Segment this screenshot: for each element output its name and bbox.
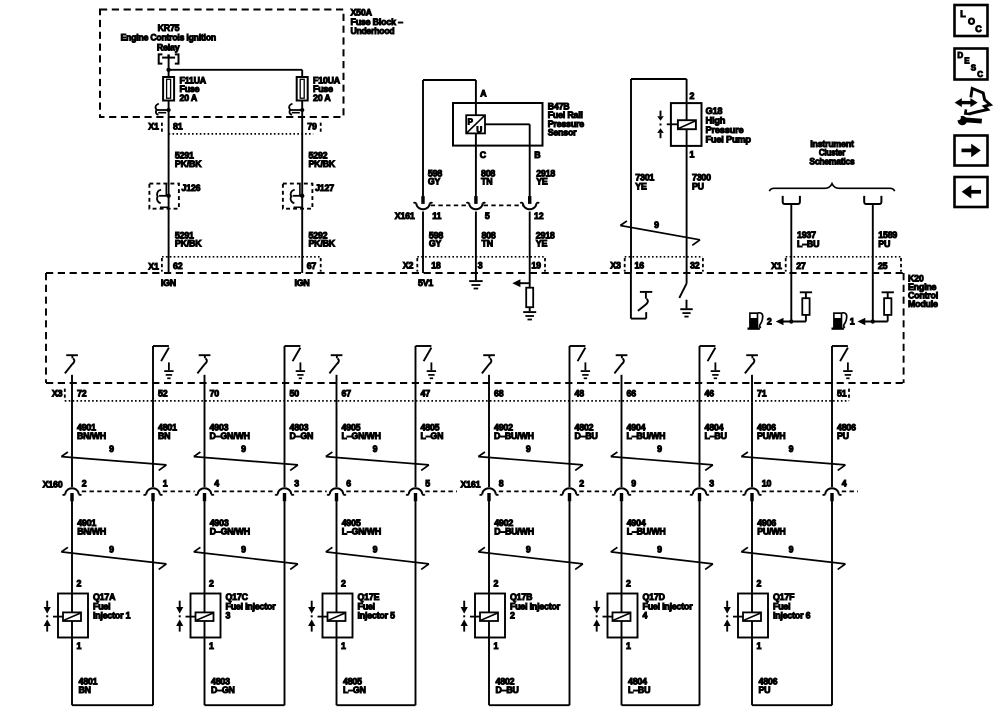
svg-text:27: 27 (796, 261, 806, 271)
svg-text:9: 9 (657, 544, 662, 554)
icon box forward arrow (955, 136, 988, 166)
label G18 High Pressure Fuel Pump (706, 106, 752, 145)
svg-text:BN/WH: BN/WH (77, 431, 106, 441)
svg-text:PU/WH: PU/WH (757, 526, 785, 536)
wire 4806 PU loop (752, 501, 832, 705)
driver internal at X3-72 (65, 355, 78, 373)
svg-text:PU/WH: PU/WH (757, 431, 785, 441)
svg-text:GY: GY (429, 239, 442, 249)
splice J126 (149, 184, 179, 209)
wire label 2918 YE upper (536, 169, 555, 187)
driver internal at X3-16 (631, 273, 652, 319)
svg-text:2: 2 (626, 579, 631, 589)
connector X160 row pin 3 (690, 488, 709, 501)
wire label 4906 PU/WH (757, 423, 785, 441)
svg-text:L–BU: L–BU (705, 431, 727, 441)
svg-text:1: 1 (494, 641, 499, 651)
in-line connector hook on wire 81 (156, 104, 171, 115)
connector X161 pin 5 (466, 196, 485, 209)
svg-text:PU: PU (837, 431, 849, 441)
svg-text:X160: X160 (43, 480, 63, 490)
svg-text:1: 1 (163, 479, 168, 489)
svg-text:51: 51 (837, 389, 847, 399)
gas pump icon 1 (832, 312, 847, 330)
svg-text:Schematics: Schematics (809, 156, 854, 166)
wire 1937 L-BU (790, 204, 792, 273)
svg-text:PU: PU (759, 685, 771, 695)
svg-text:9: 9 (654, 220, 659, 230)
label KR75 Engine Controls Ignition Relay (121, 23, 216, 52)
svg-text:20 A: 20 A (180, 93, 198, 103)
svg-text:D: D (957, 51, 963, 60)
injector Q17C coil (186, 612, 214, 621)
label K20 Engine Control Module (908, 273, 938, 309)
svg-text:L–GN: L–GN (421, 431, 444, 441)
svg-text:9: 9 (241, 544, 246, 554)
wire X2-19 internal (529, 273, 531, 288)
svg-text:52: 52 (158, 389, 168, 399)
label Q17D (643, 592, 694, 621)
junction node pin 27 (789, 319, 793, 323)
svg-text:X161: X161 (461, 480, 481, 490)
sensor B47B outer box (453, 103, 543, 146)
svg-text:High: High (706, 115, 726, 125)
wire label 4903 D&#8211;GN/WH lower (210, 518, 250, 536)
injector Q17F box (738, 594, 768, 638)
svg-text:L–GN/WH: L–GN/WH (342, 526, 381, 536)
resistor internal at pin 19 (526, 288, 533, 308)
clamp internal at X3-50 (285, 346, 306, 378)
wire X3-66 down to X160 (621, 375, 623, 487)
wire relay to junction (168, 58, 170, 77)
svg-text:72: 72 (77, 389, 87, 399)
svg-text:67: 67 (342, 389, 352, 399)
injector Q17A box (58, 594, 88, 638)
connector X160 row pin 8 (480, 488, 499, 501)
svg-text:IGN: IGN (161, 278, 176, 288)
twisted pair marker (61, 452, 166, 470)
svg-text:48: 48 (575, 389, 585, 399)
svg-text:5: 5 (425, 479, 430, 489)
injector Q17C flow arrows (176, 601, 183, 632)
wire label 4904 L&#8211;BU/WH (627, 423, 666, 441)
wire 2918 YE to X2-19 (529, 212, 531, 274)
connector row dashes (82, 490, 858, 492)
svg-text:3: 3 (478, 260, 483, 270)
wire pin 25 internal (872, 273, 874, 322)
svg-text:2: 2 (209, 579, 214, 589)
driver internal at X3-71 (745, 355, 758, 373)
svg-text:C: C (480, 150, 487, 160)
wire label 4805 L&#8211;GN (343, 677, 366, 695)
svg-text:PK/BK: PK/BK (175, 239, 202, 249)
wire label 808 TN upper (481, 169, 495, 187)
svg-text:B: B (534, 150, 540, 160)
label Q17E (358, 592, 396, 621)
svg-text:1: 1 (77, 641, 82, 651)
svg-text:2: 2 (510, 611, 515, 621)
svg-text:KR75: KR75 (158, 23, 180, 33)
twisted pair marker (741, 452, 845, 470)
wire X3-46 down to X160 (699, 346, 701, 487)
G18 check-valve arrows (657, 111, 664, 139)
svg-text:Pressure: Pressure (706, 125, 744, 135)
icon diagnostic arrows and wrench (955, 88, 991, 125)
wire pin 27 internal (790, 273, 792, 322)
svg-text:68: 68 (494, 389, 504, 399)
svg-text:L–BU: L–BU (797, 239, 819, 249)
svg-text:32: 32 (690, 260, 700, 270)
svg-text:X1: X1 (148, 261, 159, 271)
svg-text:20 A: 20 A (313, 93, 331, 103)
connector X2 row at ECM (403, 257, 545, 272)
svg-text:70: 70 (210, 389, 220, 399)
connector X161 pin 11 (414, 196, 433, 209)
svg-text:YE: YE (536, 239, 548, 249)
svg-text:O: O (968, 16, 975, 26)
injector Q17E flow arrows (308, 601, 315, 632)
wire 4901 to injector Q17A (71, 501, 73, 612)
wire G18 pin1 to X3-32 (686, 146, 688, 273)
svg-text:67: 67 (307, 261, 317, 271)
wire 4902 to injector Q17B (488, 501, 490, 612)
connector X1 pin 81/79 row (148, 121, 320, 134)
icon box DESC (955, 49, 988, 80)
clamp internal at X3-51 (832, 346, 853, 378)
wire label 4803 D&#8211;GN (211, 677, 235, 695)
wire label 4801 BN (79, 677, 98, 695)
G18 coil element (667, 120, 696, 129)
wire F11UA to X1-62 (168, 101, 170, 274)
connector X160 row pin 9 (612, 488, 631, 501)
svg-text:2: 2 (767, 317, 772, 327)
wire label 2918 YE lower (536, 230, 555, 248)
svg-text:D–BU: D–BU (575, 431, 598, 441)
svg-text:5V1: 5V1 (418, 278, 433, 288)
svg-text:L–GN: L–GN (343, 685, 366, 695)
injector Q17D coil (603, 612, 631, 621)
svg-text:A: A (480, 88, 487, 98)
label Q17A (93, 592, 131, 621)
svg-text:S: S (971, 63, 977, 72)
injector Q17F flow arrows (724, 601, 731, 632)
label Q17F (773, 592, 811, 621)
wire X3-67 down to X160 (336, 375, 338, 487)
svg-text:2: 2 (690, 91, 695, 101)
wire 4802 D&#8211;BU loop (489, 501, 570, 705)
relay KR75 contact symbol (159, 54, 179, 63)
wire label 4804 L&#8211;BU (705, 423, 727, 441)
svg-text:5: 5 (485, 211, 490, 221)
svg-text:L–BU/WH: L–BU/WH (627, 431, 666, 441)
wire X3-71 down to X160 (751, 375, 753, 487)
svg-text:X161: X161 (395, 211, 415, 221)
connector X160 row pin 4 (823, 488, 842, 501)
wire label 4901 BN/WH lower (77, 518, 106, 536)
icon box back arrow (955, 177, 988, 207)
svg-text:L: L (960, 9, 966, 19)
svg-text:X1: X1 (771, 261, 782, 271)
svg-text:1: 1 (209, 641, 214, 651)
svg-text:2: 2 (82, 479, 87, 489)
svg-text:12: 12 (534, 211, 544, 221)
ECM K20 dashed boundary (46, 273, 904, 383)
injector Q17D flow arrows (593, 601, 600, 632)
injector Q17A flow arrows (44, 601, 51, 632)
junction node (166, 68, 170, 72)
driver internal at X3-70 (197, 355, 210, 373)
twisted pair marker (478, 452, 583, 470)
wire label 598 GY upper (428, 169, 442, 187)
svg-text:L–GN/WH: L–GN/WH (342, 431, 381, 441)
wire label 1937 L-BU (797, 230, 819, 249)
svg-text:1: 1 (850, 317, 855, 327)
wire X3-52 down to X160 (152, 346, 154, 487)
wire label 4901 BN/WH (77, 423, 106, 441)
wire X3-51 down to X160 (831, 346, 833, 487)
connector X160 row pin 5 (406, 488, 425, 501)
svg-text:Sensor: Sensor (548, 127, 577, 137)
svg-text:9: 9 (526, 544, 531, 554)
svg-text:X3: X3 (52, 389, 63, 399)
brace instrument cluster (769, 184, 894, 192)
wire label 4806 PU (837, 423, 856, 441)
injector Q17C box (191, 594, 221, 638)
twisted pair marker lower (61, 547, 166, 569)
label Q17B (510, 592, 561, 621)
twisted pair marker (194, 452, 298, 470)
svg-text:9: 9 (526, 444, 531, 454)
svg-text:16: 16 (635, 260, 645, 270)
pull-up resistor internal at 27 (800, 292, 812, 321)
wire label 7300 PU (692, 172, 711, 191)
svg-text:47: 47 (421, 389, 431, 399)
wire label 4801 BN (158, 423, 177, 441)
svg-text:2: 2 (579, 479, 584, 489)
wire F10UA to X1-67 (301, 101, 303, 274)
svg-text:E: E (964, 56, 970, 65)
connector X160 row pin 4 (195, 488, 214, 501)
wire label 4802 D&#8211;BU (496, 677, 519, 695)
svg-text:4: 4 (643, 611, 648, 621)
svg-text:19: 19 (531, 260, 541, 270)
label B47B Fuel Rail Pressure Sensor (548, 102, 585, 138)
wire 4903 to injector Q17C (204, 501, 206, 612)
clamp internal at X3-52 (153, 346, 174, 378)
svg-text:Fuel Injector: Fuel Injector (510, 601, 561, 611)
svg-text:4: 4 (842, 479, 847, 489)
driver internal at X3-68 (482, 355, 495, 373)
svg-text:G18: G18 (706, 106, 723, 116)
svg-text:1: 1 (690, 150, 695, 160)
pull-up resistor internal at 25 (882, 292, 894, 321)
svg-text:3: 3 (709, 479, 714, 489)
svg-text:71: 71 (757, 389, 767, 399)
wire label 1589 PU (878, 230, 897, 249)
wire label 4905 L&#8211;GN/WH lower (342, 518, 381, 536)
twisted pair marker lower (194, 547, 298, 569)
icon box LOC (955, 5, 988, 36)
cluster connector terminal 1589 (864, 196, 881, 204)
wire X3-50 down to X160 (284, 346, 286, 487)
label Instrument Cluster Schematics (809, 139, 854, 166)
svg-text:L–BU: L–BU (628, 685, 650, 695)
svg-text:9: 9 (109, 544, 114, 554)
wire 4906 to injector Q17F (751, 501, 753, 612)
wire label 4904 L&#8211;BU/WH lower (627, 518, 666, 536)
wire 4904 to injector Q17D (621, 501, 623, 612)
wire label 4804 L&#8211;BU (628, 677, 650, 695)
svg-text:D–GN/WH: D–GN/WH (210, 526, 250, 536)
svg-text:D–GN/WH: D–GN/WH (210, 431, 250, 441)
svg-text:IGN: IGN (294, 278, 309, 288)
svg-text:2: 2 (757, 579, 762, 589)
svg-text:X1: X1 (148, 122, 159, 132)
twisted pair marker (326, 452, 429, 470)
connector X3 bottom row labels (52, 389, 849, 401)
driver internal at X3-66 (614, 355, 627, 373)
svg-text:YE: YE (536, 177, 548, 187)
signal arrow at pin 19 (512, 279, 529, 287)
label F10UA Fuse 20 A (313, 76, 341, 103)
ground below resistor (523, 307, 536, 319)
sensor P/U transducer box (466, 115, 485, 134)
ground at X3-32 (680, 300, 692, 317)
injector Q17B box (475, 594, 505, 638)
svg-text:D–BU: D–BU (496, 685, 519, 695)
svg-text:9: 9 (657, 444, 662, 454)
svg-text:D–GN: D–GN (211, 685, 235, 695)
svg-text:25: 25 (878, 261, 888, 271)
svg-text:BN: BN (158, 431, 170, 441)
svg-text:Injector 1: Injector 1 (93, 611, 131, 621)
wire 598 GY to X2-18 (422, 212, 424, 274)
connector X1 pin 62/67 row at ECM (148, 257, 320, 272)
svg-text:4: 4 (214, 479, 219, 489)
fuel gauge drive 2 line with arrow (776, 318, 806, 326)
wire label 5292 PK/BK lower (309, 230, 336, 248)
wire label 808 TN lower (482, 230, 496, 248)
svg-text:U: U (476, 125, 482, 134)
svg-text:1: 1 (626, 641, 631, 651)
svg-text:PK/BK: PK/BK (309, 239, 336, 249)
clamp internal at X3-46 (700, 346, 721, 378)
label F11UA Fuse 20 A (180, 76, 207, 103)
injector Q17B coil (470, 612, 498, 621)
wire sensor top loop (423, 80, 476, 196)
svg-text:10: 10 (762, 479, 772, 489)
svg-text:D–GN: D–GN (290, 431, 314, 441)
wire label 5291 PK/BK upper (175, 151, 202, 169)
svg-text:3: 3 (226, 611, 231, 621)
fuse F11UA (163, 77, 174, 101)
svg-text:Engine Controls Ignition: Engine Controls Ignition (121, 33, 216, 43)
connector X160 row pin 3 (275, 488, 294, 501)
wire pin C inside sensor (475, 133, 477, 196)
twisted pair marker (611, 452, 713, 470)
wire label 4903 D&#8211;GN/WH (210, 423, 250, 441)
svg-text:Fuel Injector: Fuel Injector (226, 601, 277, 611)
svg-text:3: 3 (294, 479, 299, 489)
svg-text:Fuel Pump: Fuel Pump (706, 135, 752, 145)
fuse block X50A dashed box (100, 10, 344, 118)
svg-text:9: 9 (373, 544, 378, 554)
injector Q17F coil (733, 612, 761, 621)
svg-text:11: 11 (432, 211, 441, 221)
clamp internal at X3-47 (416, 346, 437, 378)
injector Q17B flow arrows (461, 601, 468, 632)
driver internal at X3-32 with ground (679, 273, 686, 298)
wire junction to F10UA (169, 70, 303, 77)
svg-text:D–BU/WH: D–BU/WH (494, 526, 534, 536)
svg-text:Relay: Relay (157, 42, 180, 52)
wire label 4905 L&#8211;GN/WH (342, 423, 381, 441)
wire label 4805 L&#8211;GN (421, 423, 444, 441)
wire 808 TN to X2-3 (475, 212, 477, 274)
connector X160 row pin 2 (63, 488, 82, 501)
svg-text:X3: X3 (610, 260, 621, 270)
wire label 5291 PK/BK lower (175, 230, 202, 248)
wire 1589 PU (872, 204, 874, 273)
svg-text:1: 1 (757, 641, 762, 651)
svg-text:PU: PU (692, 181, 704, 191)
wire 4804 L&#8211;BU loop (622, 501, 700, 705)
injector Q17D box (608, 594, 638, 638)
svg-text:9: 9 (631, 479, 636, 489)
wire label 4906 PU/WH lower (757, 518, 785, 536)
wire G18 top loop (631, 79, 687, 273)
svg-text:8: 8 (499, 479, 504, 489)
label Q17C (226, 592, 277, 621)
wire label 5292 PK/BK upper (309, 151, 336, 169)
injector Q17E box (323, 594, 353, 638)
gas pump icon 2 (748, 312, 763, 330)
wire label 598 GY lower (429, 230, 443, 248)
wire X3-68 down to X160 (488, 375, 490, 487)
svg-text:2: 2 (494, 579, 499, 589)
svg-text:46: 46 (705, 389, 715, 399)
driver internal at X3-67 (329, 355, 342, 373)
wire label 4902 D&#8211;BU/WH lower (494, 518, 534, 536)
svg-text:2: 2 (77, 579, 82, 589)
svg-text:1: 1 (341, 641, 346, 651)
twisted pair marker G18 (620, 221, 700, 245)
wire label 4803 D&#8211;GN (290, 423, 314, 441)
connector X161 pin 12 (520, 196, 539, 209)
twisted pair marker lower (741, 547, 845, 569)
svg-text:Module: Module (908, 299, 938, 309)
wire pin B (485, 124, 530, 196)
svg-text:J127: J127 (315, 183, 334, 193)
label X50A Fuse Block - Underhood (351, 8, 404, 37)
wire X3-47 down to X160 (415, 346, 417, 487)
svg-text:9: 9 (789, 444, 794, 454)
svg-text:BN: BN (79, 685, 91, 695)
twisted pair marker lower (478, 547, 583, 569)
connector X160 row pin 1 (144, 488, 163, 501)
svg-text:62: 62 (173, 261, 183, 271)
svg-text:C: C (975, 24, 982, 34)
wire X3-72 down to X160 (71, 375, 73, 487)
connector X3 row at ECM (610, 257, 703, 272)
svg-text:Fuel Injector: Fuel Injector (643, 601, 694, 611)
connector X160 row pin 10 (743, 488, 762, 501)
injector Q17E coil (318, 612, 346, 621)
svg-text:2: 2 (341, 579, 346, 589)
connector X1 pin 27/25 row at ECM (771, 257, 901, 272)
svg-text:9: 9 (789, 544, 794, 554)
splice J127 (283, 184, 313, 209)
